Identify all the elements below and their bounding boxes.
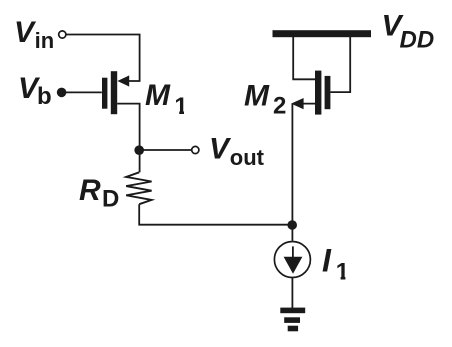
transistor M1 channel bar — [111, 71, 117, 114]
svg-text:R: R — [79, 174, 101, 207]
svg-text:V: V — [209, 132, 232, 165]
svg-text:1: 1 — [336, 258, 349, 285]
svg-text:I: I — [322, 243, 332, 279]
svg-text:out: out — [230, 145, 265, 170]
wire current source to ground — [291, 278, 293, 309]
current source I1 arrow — [292, 246, 294, 257]
svg-text:1: 1 — [174, 93, 187, 120]
svg-text:in: in — [35, 28, 55, 53]
power rail VDD — [273, 30, 372, 37]
wire output node to Vout terminal — [140, 149, 192, 151]
wire output node to resistor top — [139, 150, 141, 172]
svg-text:V: V — [14, 16, 37, 49]
transistor M1 source arrow (PMOS, pointing into channel) — [117, 75, 129, 86]
wire M1 drain down to output node — [117, 104, 139, 150]
current source I1 circle — [274, 242, 310, 278]
wire M2 source down to bottom node and current source — [291, 104, 293, 241]
node Vin terminal — [59, 31, 66, 38]
ground symbol — [280, 308, 305, 314]
node Vb terminal — [57, 88, 67, 98]
transistor M2 gate bar — [325, 76, 331, 109]
svg-text:M: M — [244, 80, 270, 113]
wire M2 gate to VDD rail — [330, 37, 350, 92]
node Vout terminal — [192, 146, 199, 153]
wire Vb to M1 gate — [62, 91, 102, 93]
svg-text:M: M — [145, 79, 171, 112]
transistor M2 source arrow (pointing left/out) — [291, 98, 304, 109]
node bottom junction dot — [287, 220, 297, 230]
svg-text:DD: DD — [400, 27, 435, 54]
wire Vin to M1 source (top) — [66, 35, 139, 82]
wire resistor bottom to bottom rail — [139, 204, 292, 225]
svg-text:2: 2 — [273, 93, 286, 120]
svg-text:b: b — [37, 83, 52, 110]
resistor RD zigzag — [126, 172, 151, 204]
wire M2 source arrow line — [296, 103, 315, 105]
svg-text:D: D — [102, 186, 119, 213]
node output junction dot — [134, 145, 144, 155]
wire VDD rail to M2 drain — [293, 37, 315, 79]
transistor M1 gate bar — [102, 78, 107, 109]
transistor M2 channel bar — [315, 71, 321, 115]
